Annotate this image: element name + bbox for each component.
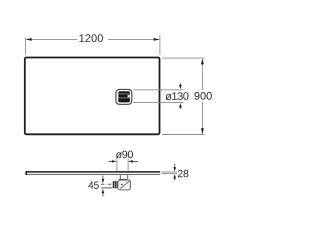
dim 1200 extension line right: [159, 35, 161, 55]
dim 130 label: [165, 92, 188, 100]
trap outlet bottom line: [101, 187, 112, 189]
dim 28 arrow up: [174, 179, 176, 181]
side view tray slab left cap: [25, 171, 27, 175]
dim 900 extension line bottom: [162, 134, 204, 136]
dim 1200 arrowhead right: [154, 38, 160, 41]
drain icon grate: [118, 91, 130, 102]
dim 45 label: [88, 182, 99, 189]
dim 1200 line right segment: [108, 38, 160, 40]
dim 45 arrow up: [102, 193, 104, 196]
dim 130 arrow up: [179, 107, 181, 109]
dim 90 label: [116, 151, 133, 159]
dim 45 arrow down: [102, 176, 104, 179]
top view tray outline: [25, 58, 160, 135]
dim 130 arrow down: [179, 84, 181, 86]
drain icon grate slot 1: [119, 93, 130, 95]
dim 900 line upper segment: [201, 59, 203, 90]
trap body diagonal: [120, 181, 130, 189]
trap throat right wall: [127, 175, 129, 179]
trap outlet centerline dash-dot: [101, 183, 113, 185]
dim 900 arrowhead down: [201, 128, 204, 134]
dim 900 extension line top: [162, 57, 204, 59]
dim 130 extension line top: [133, 89, 183, 91]
trap coupling nut: [113, 181, 119, 188]
dim 130 extension line bottom: [133, 102, 183, 104]
dim 900 arrowhead up: [201, 59, 204, 65]
dim 1200 label: [79, 34, 103, 42]
trap throat left wall: [119, 175, 121, 179]
dim 90 extension line left: [116, 159, 118, 171]
dim 900 line lower segment: [201, 102, 203, 134]
side view tray slab top edge: [26, 171, 161, 173]
dim 1200 arrowhead left: [26, 38, 32, 41]
dim 1200 line left segment: [26, 38, 77, 40]
dim 90 arrow right: [133, 160, 139, 162]
dim 28 extension line top: [162, 171, 178, 173]
dim 28 label: [178, 170, 189, 178]
dim 1200 extension line left: [24, 37, 26, 55]
drain icon grate notch: [128, 95, 130, 97]
dim 900 label: [194, 92, 211, 100]
dim 90 extension line right: [127, 159, 129, 171]
drain icon outer rim: [116, 89, 132, 104]
trap flange: [119, 179, 127, 181]
side view tray slab bottom edge: [26, 174, 160, 176]
dim 90 arrow left: [109, 160, 113, 162]
trap body: [118, 180, 130, 190]
side view tray slab fill: [26, 171, 160, 174]
trap body center mark: [121, 184, 123, 186]
dim 28 arrow down: [174, 164, 176, 167]
dim 28 extension line bottom: [162, 173, 178, 175]
drain icon grate slot 2: [119, 97, 130, 99]
